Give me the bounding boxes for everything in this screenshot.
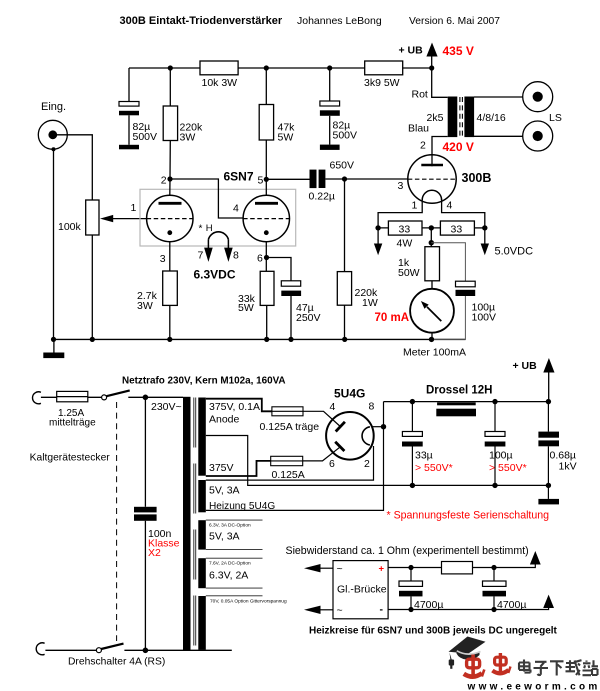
svg-text:Gl.-Brücke: Gl.-Brücke (337, 584, 387, 596)
svg-text:375V: 375V (209, 462, 234, 474)
svg-text:0.22µ: 0.22µ (309, 191, 336, 203)
arrow 5V left (374, 228, 382, 255)
svg-text:5V, 3A: 5V, 3A (209, 485, 240, 497)
node pin5 (264, 177, 269, 182)
bridge rectifier Gl.-Bruecke (333, 561, 388, 619)
capacitor 33u 550V (402, 402, 453, 486)
node rail 100u (492, 399, 497, 404)
node meter bottom (429, 337, 434, 342)
svg-text:1kV: 1kV (559, 461, 577, 473)
svg-text:Eing.: Eing. (41, 101, 66, 113)
wire top supply rail (129, 67, 432, 69)
capacitor 47u 250V (267, 258, 321, 340)
svg-text:Drehschalter 4A (RS): Drehschalter 4A (RS) (68, 657, 165, 668)
svg-text:0.125A träge: 0.125A träge (260, 421, 320, 433)
wire 300B anode to OPT (432, 137, 448, 167)
svg-text:+ UB: + UB (399, 45, 424, 57)
node 0V rail 100u (492, 483, 497, 488)
svg-text:70 mA: 70 mA (375, 312, 410, 324)
svg-text:1W: 1W (362, 297, 378, 309)
meter 100mA (375, 281, 467, 359)
node rail 0.68u (546, 399, 551, 404)
svg-text:7: 7 (198, 250, 204, 262)
resistor 33k 5W (238, 242, 274, 340)
arrow AC in top (304, 564, 333, 572)
svg-text:6SN7: 6SN7 (224, 170, 254, 184)
svg-text:100µ: 100µ (489, 450, 513, 462)
svg-text:1: 1 (131, 202, 137, 214)
tap HV top (206, 399, 272, 412)
svg-text:4: 4 (233, 203, 239, 215)
tap 5V top to pin2 (206, 446, 374, 480)
node pin8 (381, 424, 386, 429)
fuse 0.125A traege (260, 407, 320, 433)
node 33 mid (429, 225, 434, 230)
svg-text:500V: 500V (333, 130, 358, 142)
node mains bottom (143, 648, 149, 654)
svg-text:2: 2 (364, 458, 370, 470)
winding 5V Heizung (198, 480, 206, 512)
svg-text:* Spannungsfeste Serienschaltu: * Spannungsfeste Serienschaltung (387, 510, 550, 522)
wire secondary top (474, 96, 523, 98)
svg-text:Heizung 5U4G: Heizung 5U4G (209, 501, 275, 512)
wire bridge + out (388, 564, 535, 568)
svg-text:5V, 3A: 5V, 3A (209, 531, 240, 543)
ground rail main (54, 338, 466, 340)
node above 220k (168, 65, 173, 70)
svg-text:Meter 100mA: Meter 100mA (403, 347, 466, 359)
node meter top branch (429, 240, 434, 245)
node above 82u #2 (327, 65, 332, 70)
resistor 3k9 5W (364, 61, 403, 89)
node rail input (51, 337, 56, 342)
node +UB main (429, 65, 434, 70)
ground below C2 (320, 145, 340, 150)
svg-text:5U4G: 5U4G (334, 387, 365, 401)
svg-text:8: 8 (369, 401, 375, 413)
mains pin top (33, 392, 41, 404)
wire 220k to V1a anode top (169, 141, 172, 196)
svg-text:-: - (380, 604, 384, 616)
ground symbol main (43, 339, 64, 358)
svg-text:X2: X2 (148, 547, 161, 559)
winding HV 375V (198, 398, 206, 476)
svg-text:4W: 4W (397, 238, 413, 250)
wire pin8 to rail (372, 426, 383, 428)
resistor Sieb 1 Ohm (442, 562, 473, 574)
svg-text:100k: 100k (58, 221, 82, 233)
svg-text:5: 5 (258, 175, 264, 187)
svg-text:LS: LS (549, 112, 562, 124)
svg-text:3: 3 (160, 253, 166, 265)
svg-text:230V~: 230V~ (151, 401, 182, 413)
node pin6 (264, 255, 269, 260)
svg-text:3W: 3W (180, 132, 196, 144)
arrow 5V right (481, 228, 533, 258)
svg-text:375V, 0.1A: 375V, 0.1A (209, 401, 260, 413)
node heiz3 (408, 607, 413, 612)
svg-text:> 550V*: > 550V* (489, 462, 527, 474)
svg-text:300B: 300B (462, 171, 492, 185)
6SN7 envelope box (140, 189, 296, 246)
svg-text:33: 33 (399, 224, 411, 236)
potentiometer 100k (58, 200, 147, 339)
resistor 2.7k 3W (137, 242, 177, 340)
svg-text:2k5: 2k5 (427, 112, 444, 124)
svg-text:4: 4 (447, 200, 453, 212)
node rail 47u (288, 337, 293, 342)
svg-text:3k9 5W: 3k9 5W (364, 77, 400, 89)
svg-text:2: 2 (161, 175, 167, 187)
capacitor 4700u B (483, 568, 527, 612)
svg-text:0.125A: 0.125A (272, 469, 305, 481)
resistor 220k 3W (163, 68, 203, 144)
capacitor C1 82u 500V (119, 68, 157, 145)
node rail 2.7k (167, 337, 172, 342)
winding 70V option (198, 596, 206, 650)
tap 5V bottom to pin8 (206, 427, 384, 511)
node rail 220k1W (342, 337, 347, 342)
resistor 47k 5W (259, 68, 295, 144)
svg-text:4: 4 (330, 401, 336, 413)
svg-text:7.6V, 2A DC-Option: 7.6V, 2A DC-Option (209, 561, 251, 567)
arrow AC in bottom (304, 606, 333, 614)
tap HV center to 0V rail (206, 436, 549, 486)
svg-text:420 V: 420 V (443, 140, 474, 154)
svg-text:1: 1 (412, 200, 418, 212)
output transformer 2k5 : 4/8/16 (427, 97, 506, 138)
node heiz4 (491, 607, 496, 612)
svg-text:> 550V*: > 550V* (415, 462, 453, 474)
power transformer core (194, 398, 196, 650)
choke Drossel winding (437, 402, 476, 405)
fuse 1.25A (49, 391, 96, 428)
+UB arrow main (399, 43, 438, 69)
stub 70V option (206, 595, 263, 597)
node above 47k (264, 65, 269, 70)
wire mains bottom (45, 649, 96, 651)
arrow heiz out bottom (543, 595, 554, 608)
svg-text:~: ~ (337, 605, 343, 617)
svg-text:250V: 250V (296, 312, 321, 324)
node mains top (143, 395, 149, 401)
node grid 300B (342, 176, 347, 181)
ground below C1 (119, 145, 139, 150)
svg-text:6: 6 (257, 253, 263, 265)
wire to 300B grid (345, 178, 408, 180)
dashed linkage line (116, 402, 118, 641)
jack LS top (523, 82, 553, 112)
capacitor 0.68u 1kV (538, 402, 576, 486)
wire fuse to 5U4G pin6 (303, 447, 340, 461)
svg-text:mittelträge: mittelträge (49, 418, 96, 429)
triode V1b (243, 195, 289, 241)
svg-text:500V: 500V (133, 131, 158, 143)
svg-text:70V, 0.05A Option Gittervorspa: 70V, 0.05A Option Gittervorspannug (210, 599, 287, 605)
tube 300B (398, 155, 492, 203)
wire secondary bottom (474, 135, 523, 137)
svg-text:*: * (199, 224, 203, 235)
svg-text:Heizkreise für 6SN7 und 300B j: Heizkreise für 6SN7 und 300B jeweils DC … (309, 626, 558, 637)
node pin2 (167, 176, 172, 181)
svg-text:www.eeworm.com: www.eeworm.com (467, 681, 600, 691)
capacitor 0.22u coupling (266, 159, 354, 202)
svg-text:4/8/16: 4/8/16 (477, 112, 506, 124)
svg-text:2: 2 (420, 140, 426, 152)
svg-text:6: 6 (329, 458, 335, 470)
svg-text:8: 8 (233, 250, 239, 262)
PSU + rail (384, 401, 549, 403)
resistor 33 right (440, 221, 484, 236)
heater symbol H (194, 223, 240, 282)
svg-text:3: 3 (398, 180, 404, 192)
svg-text:H: H (206, 223, 213, 234)
tap HV bottom (206, 461, 271, 476)
svg-text:300B Eintakt-Triodenverstärker: 300B Eintakt-Triodenverstärker (120, 15, 283, 27)
capacitor C2 82u 500V (320, 68, 357, 145)
stub 6.3V option (206, 558, 263, 588)
+UB arrow PSU (513, 358, 555, 402)
node heiz2 (491, 565, 496, 570)
jack LS bottom (523, 121, 553, 151)
svg-text:100V: 100V (472, 312, 497, 324)
resistor 1k 50W (398, 228, 440, 281)
resistor 220k 1W (337, 179, 378, 339)
capacitor 100u 100V (431, 243, 496, 340)
svg-text:Johannes LeBong: Johannes LeBong (297, 15, 382, 27)
wires 300B filament to 33R row (378, 199, 485, 228)
svg-text:3W: 3W (137, 300, 153, 312)
svg-text:10k 3W: 10k 3W (202, 77, 238, 89)
resistor 10k 3W (200, 61, 238, 89)
wire fuse to 5U4G pin4 (303, 411, 340, 426)
node 33 right (482, 225, 487, 230)
svg-text:Kaltgerätestecker: Kaltgerätestecker (30, 453, 111, 464)
node rail 33u (410, 399, 415, 404)
svg-text:33µ: 33µ (415, 450, 433, 462)
wire pin8 up (383, 402, 385, 427)
svg-text:50W: 50W (398, 267, 420, 279)
triode V1a (147, 195, 193, 241)
switch top (102, 390, 183, 400)
svg-text:650V: 650V (330, 159, 355, 171)
wire jack to pot (53, 135, 93, 200)
svg-text:Drossel 12H: Drossel 12H (426, 385, 492, 397)
node 0V rail 33u (410, 483, 415, 488)
wire 47k to V1b top (265, 140, 267, 195)
svg-text:Siebwiderstand ca. 1 Ohm (expe: Siebwiderstand ca. 1 Ohm (experimentell … (286, 545, 529, 557)
svg-text:6.3V, 2A: 6.3V, 2A (209, 570, 248, 582)
resistor 33 left (378, 221, 440, 250)
svg-text:Netztrafo 230V, Kern M102a, 16: Netztrafo 230V, Kern M102a, 160VA (122, 376, 286, 387)
node 33 left (375, 225, 380, 230)
svg-text:+ UB: + UB (513, 360, 538, 372)
svg-text:5W: 5W (238, 302, 254, 314)
capacitor 4700u A (399, 568, 443, 612)
svg-text:+: + (379, 564, 385, 575)
capacitor 100u 550V (485, 402, 527, 486)
node rail 33k (264, 337, 269, 342)
svg-text:Version 6. Mai 2007: Version 6. Mai 2007 (409, 16, 500, 27)
svg-text:5W: 5W (278, 132, 294, 144)
capacitor 100n X2 (134, 397, 180, 650)
svg-text:Anode: Anode (209, 414, 240, 426)
svg-text:Rot: Rot (412, 89, 428, 101)
ground symbol PSU (538, 485, 559, 504)
svg-text:435 V: 435 V (443, 44, 474, 58)
svg-text:Blau: Blau (408, 123, 429, 135)
input jack Eing. (38, 101, 67, 151)
watermark logo eeworm (449, 637, 600, 691)
svg-text:6.3VDC: 6.3VDC (194, 268, 236, 282)
switch bottom (96, 644, 231, 653)
stub 5V option (206, 520, 263, 549)
power transformer primary (183, 397, 191, 651)
wire jack ground drop (53, 149, 55, 339)
node heiz1 (408, 565, 413, 570)
mains pin bottom (36, 643, 44, 655)
fuse 0.125A (271, 456, 305, 481)
node rail pot (90, 337, 95, 342)
wire bridge - out (388, 608, 548, 610)
svg-text:~: ~ (337, 563, 343, 575)
wire OPT primary top (432, 68, 448, 97)
winding 5V option (198, 520, 206, 549)
rectifier 5U4G (326, 387, 374, 471)
svg-text:33: 33 (451, 224, 463, 236)
choke Drossel core (436, 409, 476, 417)
wire mains top (41, 396, 102, 398)
winding 6.3V option (198, 558, 206, 588)
wire V1a anode to V1b grid (170, 179, 243, 218)
svg-text:6.3V, 3A DC-Option: 6.3V, 3A DC-Option (209, 523, 251, 529)
arrow heiz out top (530, 551, 541, 565)
svg-text:5.0VDC: 5.0VDC (495, 246, 534, 258)
node 0V rail 0.68u (546, 483, 551, 488)
